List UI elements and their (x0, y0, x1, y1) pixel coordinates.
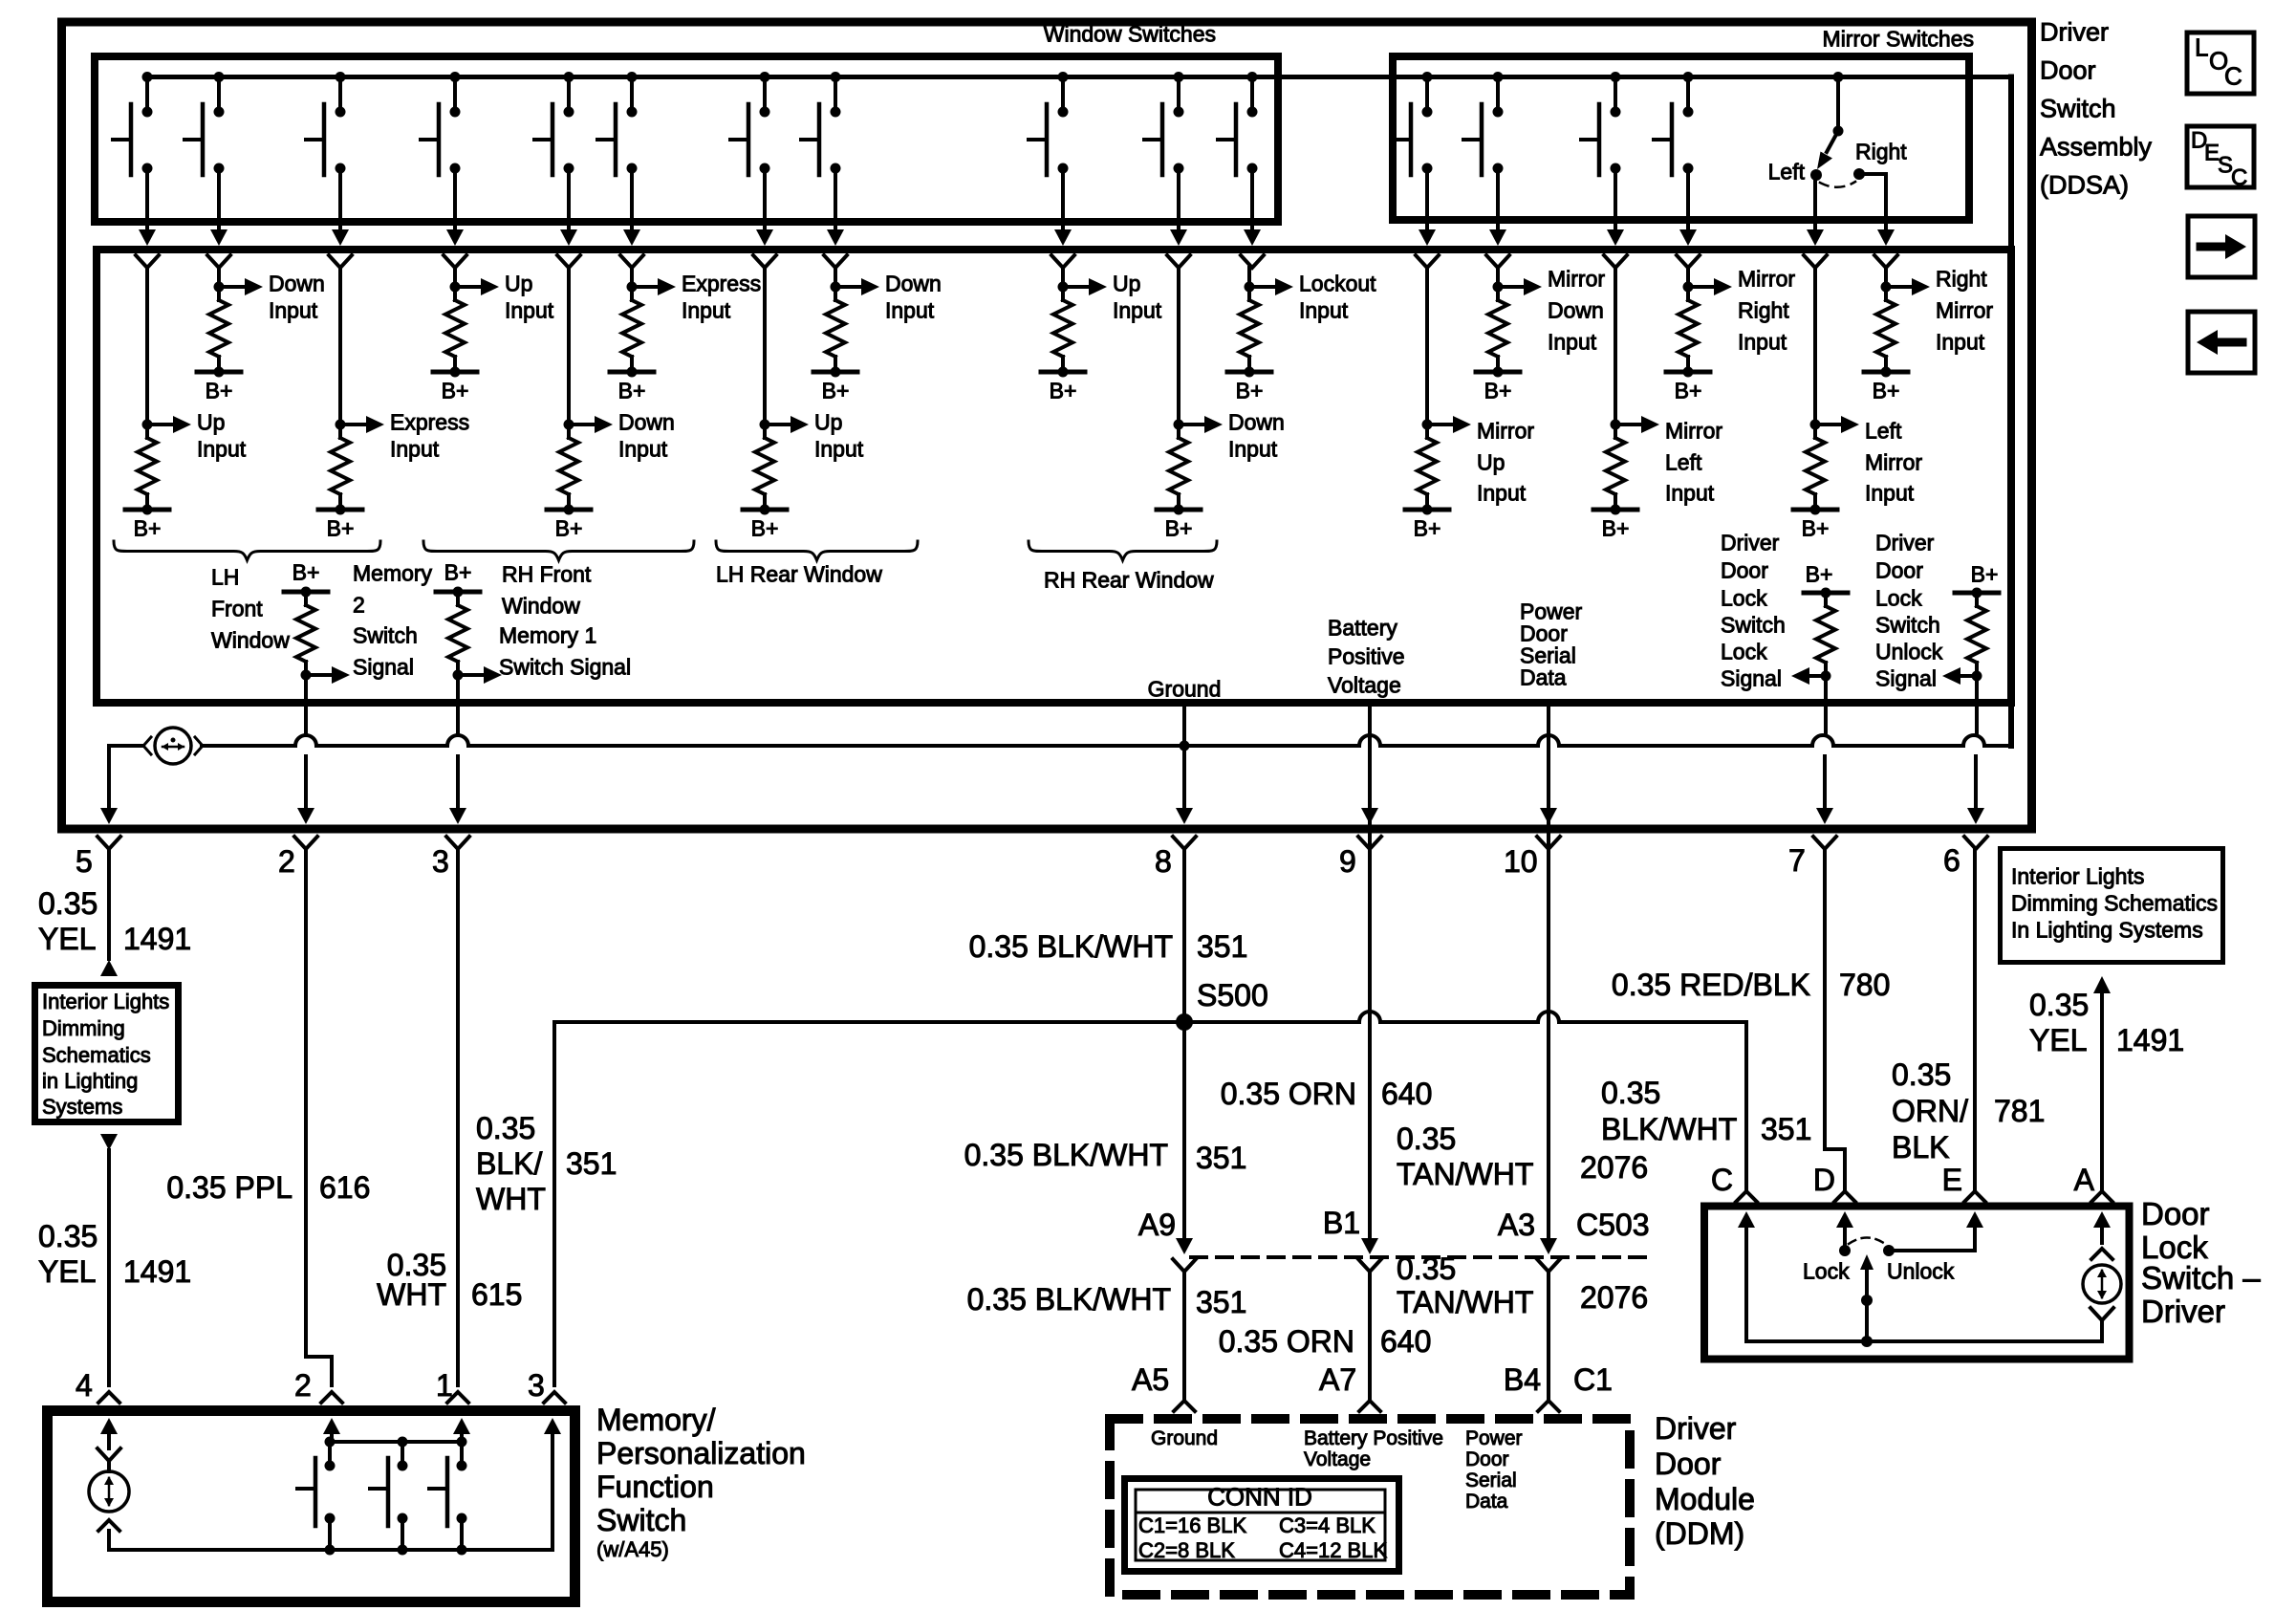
MP lamp to bus (98, 1520, 119, 1531)
svg-text:1: 1 (436, 1368, 453, 1403)
wire serial col to exit (1547, 703, 1550, 735)
prev-page arrow box (2188, 312, 2255, 373)
Door Lock Switch Driver box (1704, 1207, 2130, 1360)
svg-text:S500: S500 (1197, 978, 1268, 1012)
MP link line (330, 1440, 462, 1444)
svg-text:Function: Function (596, 1469, 714, 1504)
svg-text:Input: Input (1738, 330, 1787, 355)
svg-text:Mirror: Mirror (1936, 298, 1993, 323)
svg-text:Input: Input (1299, 298, 1349, 323)
svg-text:Input: Input (814, 437, 864, 462)
LOC box (2187, 33, 2254, 94)
svg-text:640: 640 (1380, 1324, 1431, 1359)
svg-text:Signal: Signal (353, 655, 414, 680)
svg-text:Express: Express (390, 410, 469, 435)
wire S500 splice line (554, 1012, 1746, 1022)
svg-text:BLK: BLK (1892, 1130, 1949, 1165)
svg-text:Front: Front (211, 597, 263, 621)
connector C503 dashed line (1191, 1255, 1654, 1259)
svg-text:Input: Input (1936, 330, 1985, 355)
wire lever to bus (1865, 1300, 1869, 1341)
svg-text:Power: Power (1465, 1427, 1523, 1449)
svg-text:Personalization: Personalization (596, 1436, 806, 1470)
wire pin5 col (bus corner down) (107, 746, 111, 808)
DLS internal bus (1746, 1339, 2102, 1343)
svg-text:Lock: Lock (1721, 586, 1767, 611)
wire ground 351 (A9 to A5) (1182, 1272, 1186, 1398)
svg-text:9: 9 (1339, 844, 1356, 879)
Driver Door Module dashed box (1110, 1419, 1630, 1595)
svg-text:Input: Input (1113, 298, 1162, 323)
svg-text:C3=4 BLK: C3=4 BLK (1279, 1513, 1375, 1537)
svg-text:Schematics: Schematics (42, 1043, 151, 1067)
svg-text:Left: Left (1768, 160, 1806, 185)
svg-text:B1: B1 (1323, 1206, 1360, 1240)
wire memory2 col to exit (304, 675, 308, 735)
svg-text:Dimming: Dimming (42, 1016, 125, 1040)
connector chevron into lower box x=229 (207, 255, 230, 268)
svg-text:781: 781 (1994, 1094, 2045, 1128)
svg-text:6: 6 (1943, 843, 1960, 878)
svg-text:B+: B+ (442, 379, 469, 403)
window switch (RH front up) (453, 77, 457, 113)
svg-text:Window: Window (502, 594, 580, 619)
resistor memory 2 switch signal (284, 590, 328, 595)
svg-text:B+: B+ (444, 560, 472, 585)
resistor driver door lock switch unlock signal (1955, 591, 1999, 596)
svg-text:Data: Data (1520, 665, 1567, 690)
junction dot bus window col 6 (627, 72, 638, 82)
svg-text:B+: B+ (1165, 516, 1193, 541)
svg-text:(DDSA): (DDSA) (2040, 170, 2129, 199)
svg-text:B+: B+ (1806, 562, 1833, 587)
window switch (RH front express) (630, 77, 634, 113)
wire mirror-left contact down (1813, 175, 1817, 240)
svg-text:615: 615 (471, 1277, 522, 1312)
svg-text:0.35: 0.35 (1397, 1121, 1456, 1156)
junction dot bus window col 4 (450, 72, 461, 82)
svg-text:C: C (2231, 164, 2247, 190)
resistor Mirror Up Input (row2 col x=1493) (1425, 268, 1429, 425)
svg-text:351: 351 (1196, 1285, 1246, 1319)
svg-text:Switch: Switch (1721, 613, 1786, 638)
svg-text:4: 4 (76, 1368, 93, 1403)
svg-text:351: 351 (566, 1146, 617, 1181)
svg-text:B+: B+ (751, 516, 779, 541)
wire ground col to exit (1182, 703, 1186, 808)
window switch (LH front up) (145, 77, 149, 113)
connector chevron into lower box x=1567 (1486, 255, 1509, 268)
svg-text:Mirror: Mirror (1865, 450, 1922, 475)
svg-text:Ground: Ground (1151, 1427, 1218, 1449)
svg-text:E: E (1942, 1163, 1962, 1197)
resistor Up Input (row1 col x=476) (453, 268, 457, 287)
wire 780 RED/BLK (pin7 to D) (1823, 849, 1827, 1149)
resistor driver door lock switch lock signal (1804, 591, 1848, 596)
brace RH Front Window (423, 541, 694, 560)
junction dot bus mirror selector (1833, 72, 1844, 82)
svg-text:0.35: 0.35 (1397, 1252, 1456, 1286)
svg-text:Input: Input (1548, 330, 1597, 355)
svg-text:Door: Door (1721, 558, 1768, 583)
junction dot bus mirror col 4 (1683, 72, 1694, 82)
MP pin1 internal (453, 1418, 470, 1434)
wire 615 WHT (456, 849, 460, 1385)
junction dot bus window col 9 (1058, 72, 1069, 82)
svg-text:0.35: 0.35 (38, 1219, 97, 1253)
svg-text:Window Switches: Window Switches (1044, 22, 1216, 47)
wire 351 BLK/WHT (S500 to C) (1744, 1022, 1748, 1190)
svg-text:Input: Input (682, 298, 731, 323)
resistor Mirror Right Input (row1 col x=1766) (1686, 268, 1690, 287)
wire 1491 YEL upper (107, 849, 111, 959)
wire internal bus y=780 (109, 744, 143, 748)
wire unlock col to exit (1975, 676, 1979, 735)
wire 781 ORN/BLK (pin6 to E) (1973, 849, 1977, 1190)
svg-text:Window: Window (211, 628, 290, 653)
svg-text:WHT: WHT (476, 1182, 546, 1216)
DESC box (2187, 126, 2254, 187)
junction dot bus window col 5 (564, 72, 574, 82)
svg-text:Down: Down (1228, 410, 1285, 435)
svg-text:Mirror: Mirror (1548, 267, 1605, 292)
svg-text:0.35 PPL: 0.35 PPL (166, 1170, 292, 1205)
svg-text:B+: B+ (292, 560, 320, 585)
svg-text:Lockout: Lockout (1299, 272, 1376, 296)
svg-text:Input: Input (885, 298, 935, 323)
svg-text:ORN/: ORN/ (1892, 1094, 1968, 1128)
svg-text:616: 616 (319, 1170, 370, 1205)
svg-text:0.35 ORN: 0.35 ORN (1219, 1324, 1354, 1359)
svg-text:B+: B+ (327, 516, 355, 541)
svg-text:A3: A3 (1498, 1208, 1535, 1242)
svg-text:Mirror: Mirror (1738, 267, 1795, 292)
svg-text:Switch: Switch (1875, 613, 1940, 638)
svg-text:Switch: Switch (353, 623, 418, 648)
svg-text:0.35: 0.35 (476, 1111, 535, 1145)
svg-text:B+: B+ (1971, 562, 1999, 587)
svg-text:YEL: YEL (2029, 1023, 2087, 1057)
svg-text:5: 5 (76, 844, 93, 879)
window switch (RH rear up) (1061, 77, 1065, 113)
junction dot bus window col 7 (760, 72, 770, 82)
connector chevron into lower box x=874 (824, 255, 847, 268)
connector chevron into lower box x=595 (557, 255, 580, 268)
svg-text:640: 640 (1381, 1077, 1432, 1111)
resistor Up Input (row1 col x=1112) (1061, 268, 1065, 287)
svg-text:Signal: Signal (1875, 666, 1937, 691)
wire battery 640 ORN (1368, 703, 1372, 1238)
svg-text:Battery: Battery (1328, 616, 1397, 641)
svg-text:Door: Door (1655, 1447, 1722, 1481)
wire C internal (1738, 1211, 1755, 1228)
svg-text:Mirror: Mirror (1477, 419, 1534, 444)
svg-text:WHT: WHT (377, 1277, 446, 1312)
svg-text:Switch –: Switch – (2141, 1260, 2261, 1295)
wire 616 PPL (304, 849, 308, 1357)
junction dot bus mirror col 1 (1422, 72, 1433, 82)
svg-text:(DDM): (DDM) (1655, 1516, 1744, 1551)
brace LH Front Window (114, 541, 380, 560)
svg-text:RH Rear Window: RH Rear Window (1044, 568, 1214, 593)
connector chevron into lower box x=1690 (1604, 255, 1627, 268)
svg-text:Lock: Lock (1875, 586, 1922, 611)
svg-text:Right: Right (1738, 298, 1789, 323)
Mirror Switches box (1393, 56, 1969, 220)
Window Switches box (95, 56, 1278, 222)
svg-text:YEL: YEL (38, 922, 96, 956)
junction dot bus window col 2 (214, 72, 225, 82)
svg-text:C503: C503 (1576, 1208, 1650, 1242)
junction dot bus window col 1 (142, 72, 153, 82)
svg-text:Input: Input (197, 437, 247, 462)
connector chevron into lower box x=800 (753, 255, 776, 268)
DDSA lower internal box (97, 250, 2011, 703)
svg-text:C: C (2224, 62, 2242, 91)
svg-text:Signal: Signal (1721, 666, 1782, 691)
svg-text:0.35: 0.35 (1601, 1076, 1660, 1110)
svg-text:0.35 RED/BLK: 0.35 RED/BLK (1612, 968, 1810, 1002)
connector chevron into lower box x=1310 (1241, 255, 1264, 268)
svg-text:Door: Door (2040, 55, 2096, 84)
svg-text:10: 10 (1504, 844, 1538, 879)
connector chevron into lower box x=1493 (1416, 255, 1439, 268)
svg-text:Down: Down (1548, 298, 1604, 323)
svg-text:B+: B+ (1802, 516, 1830, 541)
window switch (LH rear up) (763, 77, 767, 113)
svg-text:Up: Up (1477, 450, 1505, 475)
svg-text:Up: Up (197, 410, 225, 435)
Interior Lights box (left) (35, 986, 179, 1122)
svg-text:A5: A5 (1132, 1362, 1169, 1397)
wire lock col to exit (1824, 676, 1828, 735)
svg-text:B+: B+ (555, 516, 583, 541)
svg-text:1491: 1491 (123, 922, 191, 956)
window switch (LH rear down) (834, 77, 837, 113)
svg-text:3: 3 (528, 1368, 545, 1403)
resistor Right Mirror Input (row1 col x=1973) (1884, 268, 1888, 287)
svg-text:Systems: Systems (42, 1095, 122, 1119)
svg-text:Left: Left (1665, 450, 1702, 475)
svg-text:A7: A7 (1319, 1362, 1356, 1397)
svg-text:C1: C1 (1573, 1362, 1613, 1397)
Memory Personalization Function Switch box (48, 1411, 575, 1602)
Interior Lights box (right) (2001, 849, 2223, 963)
svg-text:Switch: Switch (596, 1503, 686, 1537)
svg-text:0.35 BLK/WHT: 0.35 BLK/WHT (967, 1282, 1171, 1317)
svg-text:Unlock: Unlock (1887, 1259, 1955, 1284)
resistor Mirror Down Input (row1 col x=1567) (1496, 268, 1500, 287)
svg-text:B+: B+ (1484, 379, 1512, 403)
wire D internal (1836, 1211, 1853, 1228)
svg-text:Data: Data (1465, 1491, 1508, 1513)
resistor memory 1 switch signal (436, 590, 480, 595)
svg-text:Driver: Driver (1655, 1411, 1737, 1446)
resistor Down Input (row2 col x=595) (567, 268, 571, 425)
svg-text:780: 780 (1839, 968, 1890, 1002)
svg-text:Memory/: Memory/ (596, 1403, 716, 1437)
MP switch 2 (401, 1442, 404, 1466)
connector chevron into lower box x=1233 (1167, 255, 1190, 268)
mirror switch (mirror right) (1686, 77, 1690, 113)
connector chevron into lower box x=661 (620, 255, 643, 268)
svg-text:Input: Input (1228, 437, 1278, 462)
svg-text:2: 2 (278, 844, 295, 879)
svg-text:Module: Module (1655, 1482, 1755, 1516)
svg-text:RH Front: RH Front (502, 562, 592, 587)
connector chevron into lower box x=356 (329, 255, 352, 268)
svg-text:2: 2 (353, 593, 365, 618)
svg-text:TAN/WHT: TAN/WHT (1397, 1285, 1533, 1319)
svg-text:2: 2 (294, 1368, 312, 1403)
svg-text:BLK/: BLK/ (476, 1146, 542, 1181)
svg-text:Express: Express (682, 272, 761, 296)
svg-text:Interior Lights: Interior Lights (2011, 864, 2144, 889)
svg-text:Input: Input (1865, 481, 1915, 506)
wire memory1 col to exit (456, 675, 460, 735)
svg-text:B+: B+ (1675, 379, 1702, 403)
svg-text:In Lighting Systems: In Lighting Systems (2011, 918, 2203, 943)
resistor Down Input (row1 col x=874) (834, 268, 837, 287)
resistor Down Input (row2 col x=1233) (1177, 268, 1180, 425)
connector chevron into lower box x=1973 (1874, 255, 1897, 268)
wire serial 2076 TAN/WHT (1547, 703, 1550, 1238)
svg-text:Driver: Driver (1721, 531, 1780, 555)
junction dot bus window col 8 (831, 72, 841, 82)
svg-text:Memory 1: Memory 1 (499, 623, 596, 648)
mirror switch (mirror left) (1614, 77, 1617, 113)
svg-text:Input: Input (269, 298, 318, 323)
svg-text:Memory: Memory (353, 561, 433, 586)
svg-text:Positive: Positive (1328, 644, 1405, 669)
MP pin3 internal (544, 1418, 561, 1434)
wire B+ feed (right side down to lower bus) (2008, 77, 2014, 747)
svg-text:Assembly: Assembly (2040, 132, 2153, 161)
svg-text:351: 351 (1196, 1141, 1246, 1175)
brace LH Rear Window (716, 541, 918, 560)
lamp DLS (2093, 1211, 2111, 1228)
svg-text:B+: B+ (1414, 516, 1441, 541)
brace RH Rear Window (1029, 541, 1217, 560)
junction dot bus window col 11 (1247, 72, 1258, 82)
svg-text:351: 351 (1761, 1112, 1811, 1146)
CONN ID table (1125, 1479, 1399, 1572)
svg-text:2076: 2076 (1580, 1150, 1648, 1185)
mirror switch (mirror up) (1425, 77, 1429, 113)
svg-text:B+: B+ (1873, 379, 1900, 403)
svg-text:YEL: YEL (38, 1254, 96, 1289)
svg-text:TAN/WHT: TAN/WHT (1397, 1157, 1533, 1191)
svg-text:in Lighting: in Lighting (42, 1069, 138, 1093)
resistor Lockout Input (row1 col x=1307) (1247, 268, 1251, 287)
wire ground 351 (S500 to A9) (1182, 1022, 1186, 1238)
svg-text:Up: Up (814, 410, 842, 435)
svg-text:Serial: Serial (1465, 1469, 1517, 1491)
MP pin4 internal (100, 1418, 118, 1434)
resistor Express Input (row1 col x=661) (630, 268, 634, 287)
junction dot bus/ground (1180, 741, 1190, 751)
resistor Up Input (row2 col x=800) (763, 268, 767, 425)
svg-text:A: A (2074, 1163, 2095, 1197)
svg-text:Input: Input (505, 298, 554, 323)
DDSA outer box (Driver Door Switch Assembly) (62, 22, 2032, 829)
svg-text:Door: Door (1465, 1448, 1509, 1470)
svg-text:Down: Down (885, 272, 942, 296)
svg-text:Right: Right (1855, 140, 1907, 164)
svg-text:L: L (2195, 33, 2208, 62)
window switch (LH front down) (217, 77, 221, 113)
svg-text:Mirror: Mirror (1665, 419, 1722, 444)
resistor Up Input (row2 col x=154) (145, 268, 149, 425)
svg-text:Input: Input (1477, 481, 1527, 506)
svg-text:CONN ID: CONN ID (1207, 1483, 1312, 1512)
svg-text:Driver: Driver (2040, 17, 2109, 46)
svg-text:D: D (1813, 1163, 1835, 1197)
svg-text:7: 7 (1788, 843, 1806, 878)
svg-text:Down: Down (269, 272, 325, 296)
wire E internal (1966, 1211, 1983, 1228)
junction dot bus window col 10 (1174, 72, 1184, 82)
connector chevron into lower box x=1766 (1677, 255, 1700, 268)
svg-text:B+: B+ (1050, 379, 1077, 403)
svg-text:Switch Signal: Switch Signal (499, 655, 631, 680)
svg-text:B+: B+ (134, 516, 162, 541)
svg-text:Interior Lights: Interior Lights (42, 990, 169, 1013)
svg-text:Down: Down (618, 410, 675, 435)
window switch (RH rear down) (1177, 77, 1180, 113)
svg-text:0.35 ORN: 0.35 ORN (1221, 1077, 1356, 1111)
svg-text:Up: Up (505, 272, 532, 296)
svg-text:Mirror Switches: Mirror Switches (1823, 27, 1974, 52)
svg-text:Lock: Lock (1803, 1259, 1850, 1284)
connector chevron into lower box x=154 (136, 255, 159, 268)
svg-text:Battery Positive: Battery Positive (1304, 1427, 1443, 1449)
svg-text:2076: 2076 (1580, 1280, 1648, 1315)
svg-text:Dimming Schematics: Dimming Schematics (2011, 891, 2218, 916)
inline connector symbol on bus (155, 728, 191, 764)
svg-text:C4=12 BLK: C4=12 BLK (1279, 1538, 1387, 1562)
svg-text:B+: B+ (1236, 379, 1264, 403)
next-page arrow box (2188, 216, 2255, 277)
junction dot bus mirror col 3 (1611, 72, 1621, 82)
svg-text:B+: B+ (822, 379, 850, 403)
svg-text:1491: 1491 (2116, 1023, 2184, 1057)
window switch (lockout) (1250, 77, 1254, 113)
svg-text:0.35: 0.35 (2029, 988, 2089, 1022)
svg-text:BLK/WHT: BLK/WHT (1601, 1112, 1737, 1146)
svg-text:Right: Right (1936, 267, 1987, 292)
svg-text:0.35 BLK/WHT: 0.35 BLK/WHT (969, 929, 1173, 964)
MP switch 3 (460, 1442, 464, 1466)
svg-text:0.35 BLK/WHT: 0.35 BLK/WHT (964, 1138, 1168, 1172)
resistor Express Input (row2 col x=356) (338, 268, 342, 425)
svg-text:351: 351 (1197, 929, 1247, 964)
junction dot bus window col 3 (336, 72, 346, 82)
svg-text:B+: B+ (1602, 516, 1630, 541)
svg-text:Door: Door (1875, 558, 1923, 583)
svg-text:Ground: Ground (1148, 677, 1222, 702)
svg-text:B4: B4 (1504, 1362, 1541, 1397)
svg-text:Input: Input (618, 437, 668, 462)
wire ground 351 (pin8 to S500) (1182, 849, 1186, 1022)
svg-text:LH: LH (211, 565, 239, 590)
svg-text:0.35: 0.35 (38, 886, 97, 921)
svg-text:Unlock: Unlock (1875, 640, 1943, 664)
svg-text:C: C (1711, 1163, 1733, 1197)
svg-text:Input: Input (390, 437, 440, 462)
mirror switch (mirror down) (1496, 77, 1500, 113)
MP pin2 internal (323, 1418, 340, 1434)
